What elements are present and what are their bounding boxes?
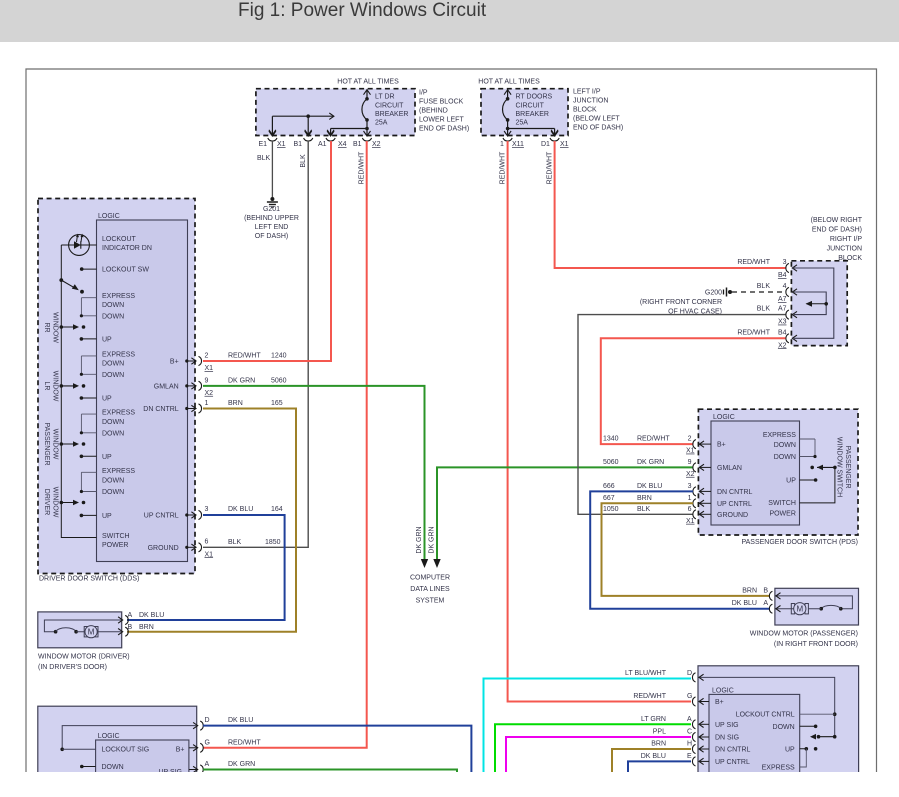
passenger motor pin B bbox=[769, 591, 772, 600]
passenger module express bracket bbox=[800, 749, 807, 767]
svg-text:UP SIG: UP SIG bbox=[159, 769, 183, 776]
passenger module lockout cntrl stub bbox=[800, 713, 835, 715]
DDS driver window switch switch arm bbox=[60, 501, 64, 505]
svg-text:RED/WHT: RED/WHT bbox=[737, 329, 770, 336]
junction internal wire 4 to A7 bbox=[794, 292, 826, 315]
pin A1 bbox=[327, 131, 334, 136]
svg-text:END OF DASH): END OF DASH) bbox=[573, 125, 623, 132]
junction internal wire 3 to B4 bbox=[794, 268, 834, 338]
svg-text:B+: B+ bbox=[717, 442, 726, 449]
svg-text:UP: UP bbox=[102, 396, 112, 403]
svg-text:CIRCUIT: CIRCUIT bbox=[375, 103, 404, 110]
svg-text:(BEHIND: (BEHIND bbox=[419, 108, 448, 115]
svg-text:RED/WHT: RED/WHT bbox=[228, 353, 261, 360]
ground G201 bbox=[270, 197, 274, 201]
svg-text:GROUND: GROUND bbox=[148, 545, 179, 552]
passenger module switch arm bbox=[810, 734, 816, 740]
svg-text:G: G bbox=[687, 693, 692, 700]
PDS pin UP CNTRL bbox=[693, 499, 696, 508]
junction internal arrow bbox=[824, 302, 828, 306]
DDS driver window switch express-down bracket bbox=[81, 471, 96, 473]
svg-text:A: A bbox=[763, 600, 768, 607]
svg-text:OF DASH): OF DASH) bbox=[255, 233, 288, 240]
svg-text:WINDOW: WINDOW bbox=[52, 371, 59, 402]
svg-text:B4: B4 bbox=[778, 272, 787, 279]
svg-text:EXPRESS: EXPRESS bbox=[102, 410, 135, 417]
svg-text:DOWN: DOWN bbox=[102, 313, 124, 320]
wire LT BLU/WHT to pin D bbox=[484, 679, 692, 773]
driver module pin A bbox=[189, 769, 198, 771]
svg-text:X11: X11 bbox=[512, 141, 524, 148]
svg-text:H: H bbox=[687, 741, 692, 748]
svg-text:X2: X2 bbox=[778, 342, 787, 349]
svg-text:3: 3 bbox=[205, 506, 209, 513]
svg-text:EXPRESS: EXPRESS bbox=[102, 293, 135, 300]
svg-text:DRIVER: DRIVER bbox=[43, 489, 50, 515]
svg-text:25A: 25A bbox=[516, 120, 529, 127]
svg-text:RED/WHT: RED/WHT bbox=[546, 151, 553, 184]
passenger module internal wire D bbox=[698, 677, 835, 736]
svg-text:UP: UP bbox=[785, 746, 795, 753]
svg-text:1850: 1850 bbox=[265, 539, 281, 546]
svg-text:WINDOW: WINDOW bbox=[52, 312, 59, 343]
svg-text:DOWN: DOWN bbox=[774, 442, 796, 449]
motor M driver bbox=[84, 627, 87, 637]
svg-text:(RIGHT FRONT CORNER: (RIGHT FRONT CORNER bbox=[640, 299, 722, 306]
svg-text:WINDOW: WINDOW bbox=[52, 487, 59, 518]
DDS passenger window switch switch arm bbox=[60, 442, 64, 446]
svg-text:G201: G201 bbox=[263, 206, 280, 213]
svg-text:666: 666 bbox=[603, 483, 615, 490]
svg-text:DK BLU: DK BLU bbox=[228, 506, 253, 513]
svg-text:END OF DASH): END OF DASH) bbox=[812, 227, 862, 234]
svg-text:E1: E1 bbox=[259, 141, 268, 148]
svg-text:X1: X1 bbox=[686, 448, 695, 455]
svg-text:BRN: BRN bbox=[228, 400, 243, 407]
svg-text:DRIVER DOOR SWITCH (DDS): DRIVER DOOR SWITCH (DDS) bbox=[39, 576, 139, 583]
svg-text:UP CNTRL: UP CNTRL bbox=[144, 513, 179, 520]
svg-text:JUNCTION: JUNCTION bbox=[827, 246, 862, 253]
svg-text:X1: X1 bbox=[205, 551, 214, 558]
svg-text:1050: 1050 bbox=[603, 506, 619, 513]
svg-text:1: 1 bbox=[500, 141, 504, 148]
svg-text:B4: B4 bbox=[778, 329, 787, 336]
svg-text:POWER: POWER bbox=[769, 511, 795, 518]
svg-text:RR: RR bbox=[43, 322, 50, 332]
svg-text:B1: B1 bbox=[353, 141, 362, 148]
DDS outer box bbox=[38, 199, 195, 574]
svg-text:RED/WHT: RED/WHT bbox=[358, 151, 365, 184]
svg-text:DOWN: DOWN bbox=[102, 302, 124, 309]
svg-text:D: D bbox=[205, 717, 210, 724]
svg-text:LOWER LEFT: LOWER LEFT bbox=[419, 117, 464, 124]
svg-text:2: 2 bbox=[205, 353, 209, 360]
svg-text:Fig 1: Power Windows Circuit: Fig 1: Power Windows Circuit bbox=[238, 0, 487, 21]
driver window motor box bbox=[38, 612, 122, 648]
svg-text:DN SIG: DN SIG bbox=[715, 735, 739, 742]
svg-text:X2: X2 bbox=[686, 471, 695, 478]
svg-text:BRN: BRN bbox=[742, 587, 757, 594]
svg-text:LR: LR bbox=[43, 382, 50, 391]
breaker internal wire to D1 bbox=[506, 127, 510, 131]
svg-text:WINDOW SWITCH: WINDOW SWITCH bbox=[836, 437, 843, 497]
left I/P junction block box bbox=[481, 89, 568, 136]
svg-text:BRN: BRN bbox=[651, 741, 666, 748]
pin B1 X2 bbox=[364, 131, 371, 136]
I/P fuse block box bbox=[256, 89, 415, 136]
fuse block internal wire to A1 bbox=[331, 128, 367, 130]
svg-text:LOCKOUT SIG: LOCKOUT SIG bbox=[102, 747, 150, 754]
wire DK GRN DDS GMLAN to data lines bbox=[203, 386, 425, 560]
wire DK BLU module D to off-page bbox=[203, 726, 471, 772]
svg-text:DOWN: DOWN bbox=[102, 419, 124, 426]
svg-text:RED/WHT: RED/WHT bbox=[228, 739, 261, 746]
svg-text:(BELOW RIGHT: (BELOW RIGHT bbox=[811, 217, 863, 224]
svg-text:B+: B+ bbox=[715, 699, 724, 706]
PDS switch power wire bbox=[800, 467, 835, 503]
svg-text:HOT AT ALL TIMES: HOT AT ALL TIMES bbox=[337, 79, 399, 86]
driver module down contact bbox=[80, 765, 84, 769]
svg-text:UP: UP bbox=[102, 513, 112, 520]
svg-text:25A: 25A bbox=[375, 120, 388, 127]
svg-text:LT GRN: LT GRN bbox=[641, 716, 666, 723]
passenger window motor box bbox=[775, 588, 859, 625]
passenger module down contact bbox=[800, 725, 816, 727]
passenger module pin G bbox=[692, 697, 695, 706]
wire BRN PDS UP CNTRL to motor B bbox=[602, 503, 771, 596]
PDS pin GMLAN bbox=[693, 463, 696, 472]
wire DK BLU to pin E bbox=[628, 761, 691, 772]
svg-text:END OF DASH): END OF DASH) bbox=[419, 126, 469, 133]
svg-text:FUSE BLOCK: FUSE BLOCK bbox=[419, 99, 464, 106]
wire BLK B1 to DDS GROUND bbox=[203, 141, 308, 547]
svg-text:M: M bbox=[88, 627, 95, 636]
svg-text:UP: UP bbox=[102, 336, 112, 343]
passenger window module box bbox=[698, 666, 859, 790]
DDS passenger window switch up contact bbox=[80, 455, 84, 459]
circuit breaker LT DR symbol bbox=[366, 90, 368, 99]
driver motor brush arc bbox=[54, 630, 58, 634]
svg-text:B: B bbox=[128, 624, 133, 631]
DDS LR window switch switch arm bbox=[60, 384, 64, 388]
data lines arrow 2 bbox=[433, 559, 440, 568]
svg-text:RIGHT I/P: RIGHT I/P bbox=[830, 236, 862, 243]
svg-text:CIRCUIT: CIRCUIT bbox=[516, 103, 545, 110]
circuit breaker RT DOORS symbol bbox=[507, 90, 509, 99]
svg-text:RED/WHT: RED/WHT bbox=[633, 693, 666, 700]
PDS pin GROUND bbox=[693, 510, 696, 519]
svg-text:BLK: BLK bbox=[637, 506, 651, 513]
svg-text:3: 3 bbox=[783, 259, 787, 266]
svg-text:DK BLU: DK BLU bbox=[228, 717, 253, 724]
svg-text:C: C bbox=[687, 729, 692, 736]
svg-text:X1: X1 bbox=[277, 141, 286, 148]
data lines arrow 1 bbox=[421, 559, 428, 568]
svg-text:A7: A7 bbox=[778, 306, 787, 313]
svg-text:X1: X1 bbox=[560, 141, 569, 148]
svg-text:1240: 1240 bbox=[271, 353, 287, 360]
svg-text:5060: 5060 bbox=[271, 377, 287, 384]
PDS pin B+ bbox=[693, 440, 696, 449]
svg-text:E: E bbox=[687, 753, 692, 760]
PDS logic box bbox=[711, 421, 800, 525]
pin E1 bbox=[269, 131, 276, 136]
junction pin 4 bbox=[786, 287, 789, 296]
ground G200 bbox=[723, 290, 725, 295]
svg-text:UP CNTRL: UP CNTRL bbox=[717, 501, 752, 508]
svg-text:GMLAN: GMLAN bbox=[717, 465, 742, 472]
pin 1 bbox=[504, 131, 511, 136]
wire LT GRN to pin A bbox=[495, 724, 691, 772]
pin B1 bbox=[305, 131, 312, 136]
driver motor internal wire bbox=[44, 620, 121, 632]
svg-text:DOWN: DOWN bbox=[102, 372, 124, 379]
svg-text:LOCKOUT: LOCKOUT bbox=[102, 236, 137, 243]
svg-text:WINDOW MOTOR (DRIVER): WINDOW MOTOR (DRIVER) bbox=[38, 654, 130, 661]
svg-text:(IN RIGHT FRONT DOOR): (IN RIGHT FRONT DOOR) bbox=[774, 641, 858, 648]
svg-text:4: 4 bbox=[783, 283, 787, 290]
wire DK BLU PDS DN CNTRL to motor A bbox=[590, 491, 770, 608]
svg-text:LOGIC: LOGIC bbox=[98, 733, 120, 740]
junction pin B4 bbox=[786, 334, 789, 343]
svg-text:1: 1 bbox=[688, 495, 692, 502]
DDS RR window switch express-down bracket bbox=[81, 297, 96, 299]
svg-text:DATA LINES: DATA LINES bbox=[410, 586, 450, 593]
svg-text:SYSTEM: SYSTEM bbox=[416, 598, 445, 605]
svg-text:INDICATOR DN: INDICATOR DN bbox=[102, 245, 152, 252]
wire BLK X3 to PDS GROUND bbox=[578, 315, 786, 515]
svg-text:BRN: BRN bbox=[139, 624, 154, 631]
svg-text:B: B bbox=[763, 587, 768, 594]
svg-text:164: 164 bbox=[271, 506, 283, 513]
svg-text:WINDOW: WINDOW bbox=[52, 429, 59, 460]
svg-text:DOWN: DOWN bbox=[102, 360, 124, 367]
svg-text:G: G bbox=[205, 739, 210, 746]
passenger module logic box bbox=[709, 694, 800, 790]
svg-text:X3: X3 bbox=[778, 319, 787, 326]
svg-text:M: M bbox=[796, 604, 803, 613]
svg-text:SWITCH: SWITCH bbox=[768, 500, 796, 507]
driver module pin G bbox=[189, 747, 198, 749]
svg-text:DK GRN: DK GRN bbox=[416, 526, 423, 553]
junction pin A7 bbox=[786, 310, 789, 319]
wire RED/WHT A1 to DDS B+ bbox=[203, 141, 331, 361]
svg-text:BLK: BLK bbox=[300, 154, 307, 168]
junction pin 3 bbox=[786, 263, 789, 272]
svg-text:X1: X1 bbox=[205, 365, 214, 372]
svg-text:DK GRN: DK GRN bbox=[228, 761, 255, 768]
passenger module up contact bbox=[800, 748, 807, 750]
passenger motor brush arc bbox=[839, 607, 843, 611]
svg-text:COMPUTER: COMPUTER bbox=[410, 575, 450, 582]
driver motor pin A bbox=[118, 617, 123, 623]
passenger module pin H bbox=[692, 744, 695, 753]
svg-text:A1: A1 bbox=[318, 141, 327, 148]
svg-text:X2: X2 bbox=[372, 141, 381, 148]
svg-text:9: 9 bbox=[688, 459, 692, 466]
svg-text:LEFT END: LEFT END bbox=[255, 224, 289, 231]
DDS RR window switch up contact bbox=[80, 337, 84, 341]
svg-text:X1: X1 bbox=[686, 518, 695, 525]
svg-text:DK BLU: DK BLU bbox=[732, 600, 757, 607]
svg-text:BREAKER: BREAKER bbox=[375, 111, 408, 118]
svg-text:UP: UP bbox=[102, 454, 112, 461]
svg-text:667: 667 bbox=[603, 495, 615, 502]
right junction block box bbox=[791, 261, 847, 346]
svg-text:DK BLU: DK BLU bbox=[637, 483, 662, 490]
driver module pin D bbox=[193, 722, 198, 728]
svg-text:X4: X4 bbox=[338, 141, 347, 148]
DDS passenger window switch express-down bracket bbox=[81, 413, 96, 415]
svg-text:I/P: I/P bbox=[419, 90, 428, 97]
passenger module pin D bbox=[692, 673, 695, 682]
svg-text:RED/WHT: RED/WHT bbox=[637, 436, 670, 443]
svg-text:JUNCTION: JUNCTION bbox=[573, 98, 608, 105]
DDS LR window switch up contact bbox=[80, 396, 84, 400]
svg-text:EXPRESS: EXPRESS bbox=[102, 468, 135, 475]
svg-text:POWER: POWER bbox=[102, 542, 128, 549]
passenger motor internal wire bbox=[775, 596, 853, 609]
passenger module pin E bbox=[692, 757, 695, 766]
svg-text:RT DOORS: RT DOORS bbox=[516, 94, 553, 101]
svg-text:LOCKOUT SW: LOCKOUT SW bbox=[102, 267, 149, 274]
svg-text:UP: UP bbox=[786, 478, 796, 485]
svg-text:LT DR: LT DR bbox=[375, 94, 395, 101]
svg-text:LOGIC: LOGIC bbox=[98, 213, 120, 220]
svg-text:DK BLU: DK BLU bbox=[641, 753, 666, 760]
svg-text:(IN DRIVER'S DOOR): (IN DRIVER'S DOOR) bbox=[38, 664, 107, 671]
passenger motor pin A bbox=[769, 604, 772, 613]
wire RED/WHT B4 X2 to PDS B+ bbox=[601, 338, 786, 444]
svg-text:DOWN: DOWN bbox=[102, 430, 124, 437]
title bar bbox=[0, 0, 899, 42]
PDS express-down bracket bbox=[800, 438, 816, 440]
wire DK GRN PDS GMLAN to data lines bbox=[437, 467, 693, 559]
svg-text:A: A bbox=[687, 716, 692, 723]
svg-text:A: A bbox=[205, 761, 210, 768]
DDS driver window switch up contact bbox=[80, 514, 84, 518]
svg-text:1: 1 bbox=[205, 400, 209, 407]
svg-text:PASSENGER: PASSENGER bbox=[844, 445, 851, 488]
svg-text:BLK: BLK bbox=[257, 155, 271, 162]
svg-text:DK GRN: DK GRN bbox=[637, 459, 664, 466]
svg-text:X2: X2 bbox=[205, 390, 214, 397]
motor M passenger bbox=[791, 604, 794, 614]
driver module internal wire D bbox=[62, 726, 197, 750]
svg-text:DOWN: DOWN bbox=[774, 454, 796, 461]
svg-text:SWITCH: SWITCH bbox=[102, 533, 130, 540]
driver module logic box bbox=[96, 740, 189, 790]
svg-text:PASSENGER DOOR SWITCH (PDS): PASSENGER DOOR SWITCH (PDS) bbox=[741, 539, 858, 546]
fuse block internal bus wire bbox=[272, 115, 334, 117]
svg-text:DOWN: DOWN bbox=[102, 764, 124, 771]
svg-text:DN CNTRL: DN CNTRL bbox=[717, 489, 752, 496]
svg-text:B+: B+ bbox=[170, 359, 179, 366]
svg-text:UP SIG: UP SIG bbox=[715, 722, 739, 729]
svg-text:6: 6 bbox=[205, 538, 209, 545]
svg-text:GROUND: GROUND bbox=[717, 512, 748, 519]
PDS outer box bbox=[698, 409, 858, 535]
DDS lockout switch arm bbox=[59, 278, 63, 282]
PDS pin DN CNTRL bbox=[693, 487, 696, 496]
svg-text:PPL: PPL bbox=[653, 729, 666, 736]
svg-text:BLK: BLK bbox=[757, 306, 771, 313]
svg-text:2: 2 bbox=[688, 436, 692, 443]
DDS LR window switch express-down bracket bbox=[81, 355, 96, 357]
svg-text:D1: D1 bbox=[541, 141, 550, 148]
svg-text:BRN: BRN bbox=[637, 495, 652, 502]
svg-text:G200: G200 bbox=[705, 289, 722, 296]
svg-text:B1: B1 bbox=[294, 141, 303, 148]
svg-text:DK BLU: DK BLU bbox=[139, 612, 164, 619]
svg-text:LOCKOUT CNTRL: LOCKOUT CNTRL bbox=[736, 712, 795, 719]
svg-text:3: 3 bbox=[688, 483, 692, 490]
driver window module box bbox=[38, 706, 197, 790]
svg-text:RED/WHT: RED/WHT bbox=[737, 259, 770, 266]
svg-text:PASSENGER: PASSENGER bbox=[43, 422, 50, 465]
wire RED/WHT D1 to right junction pin 3 bbox=[555, 141, 786, 268]
pin D1 bbox=[551, 131, 558, 136]
svg-text:BREAKER: BREAKER bbox=[516, 111, 549, 118]
passenger module pin A bbox=[692, 720, 695, 729]
LED lockout indicator bbox=[61, 244, 96, 246]
svg-text:5060: 5060 bbox=[603, 459, 619, 466]
svg-text:HOT AT ALL TIMES: HOT AT ALL TIMES bbox=[478, 79, 540, 86]
svg-text:UP CNTRL: UP CNTRL bbox=[715, 759, 750, 766]
svg-text:6: 6 bbox=[688, 506, 692, 513]
DDS logic box bbox=[97, 220, 188, 562]
svg-text:BLOCK: BLOCK bbox=[573, 107, 597, 114]
svg-text:DN CNTRL: DN CNTRL bbox=[143, 406, 178, 413]
svg-text:DK GRN: DK GRN bbox=[228, 377, 255, 384]
svg-text:B+: B+ bbox=[176, 747, 185, 754]
driver motor pin B bbox=[118, 629, 123, 635]
svg-text:D: D bbox=[687, 670, 692, 677]
svg-text:(BEHIND UPPER: (BEHIND UPPER bbox=[244, 215, 299, 222]
svg-text:WINDOW MOTOR (PASSENGER): WINDOW MOTOR (PASSENGER) bbox=[750, 631, 858, 638]
svg-text:DN CNTRL: DN CNTRL bbox=[715, 747, 750, 754]
DDS RR window switch switch arm bbox=[60, 325, 64, 329]
wire BLK E1 to G201 bbox=[271, 141, 273, 197]
svg-text:EXPRESS: EXPRESS bbox=[762, 764, 795, 771]
PDS switch arm bbox=[810, 466, 814, 470]
svg-text:A7: A7 bbox=[778, 296, 787, 303]
svg-text:165: 165 bbox=[271, 400, 283, 407]
wire BRN DDS DN CNTRL to motor B bbox=[127, 409, 296, 632]
svg-text:1340: 1340 bbox=[603, 436, 619, 443]
wire RED/WHT pin1 to passenger module G bbox=[508, 141, 691, 702]
svg-text:DOWN: DOWN bbox=[773, 724, 795, 731]
svg-text:LOGIC: LOGIC bbox=[713, 414, 735, 421]
svg-text:GMLAN: GMLAN bbox=[154, 383, 179, 390]
svg-text:LEFT I/P: LEFT I/P bbox=[573, 89, 601, 96]
wire RED/WHT X2 to driver window module G bbox=[203, 141, 367, 748]
svg-text:A: A bbox=[128, 612, 133, 619]
svg-text:BLK: BLK bbox=[228, 539, 242, 546]
svg-text:BLOCK: BLOCK bbox=[838, 255, 862, 262]
svg-text:DOWN: DOWN bbox=[102, 489, 124, 496]
svg-text:LT BLU/WHT: LT BLU/WHT bbox=[625, 670, 667, 677]
svg-text:DOWN: DOWN bbox=[102, 477, 124, 484]
svg-text:DK GRN: DK GRN bbox=[428, 526, 435, 553]
svg-text:EXPRESS: EXPRESS bbox=[763, 432, 796, 439]
passenger module pin C bbox=[692, 732, 695, 741]
svg-text:BLK: BLK bbox=[757, 283, 771, 290]
DDS switch bus bbox=[61, 245, 96, 538]
svg-text:LOGIC: LOGIC bbox=[712, 687, 734, 694]
wire DK GRN module A to off-page bbox=[203, 770, 457, 773]
svg-text:9: 9 bbox=[205, 377, 209, 384]
